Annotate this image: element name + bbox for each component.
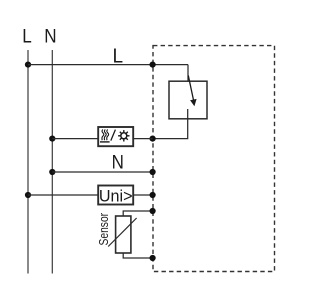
terminal dot sensor bottom [150, 255, 156, 261]
wire sensor top [123, 211, 152, 216]
terminal dot sensor top [150, 208, 156, 214]
wire N to load [52, 138, 152, 140]
wire N branch [52, 171, 152, 173]
switch lever arrow [188, 76, 196, 107]
svg-text:Uni>: Uni> [99, 186, 133, 205]
junction dot L-branch [25, 62, 31, 68]
svg-text:L: L [112, 45, 123, 68]
wire L branch horizontal [28, 64, 188, 66]
junction dot on L (Uni branch) [25, 192, 31, 198]
load box heating/cooling [98, 127, 133, 146]
wire sensor bottom [123, 253, 152, 258]
terminal dot L [150, 62, 156, 68]
svg-text:L: L [22, 26, 32, 47]
junction dot on N (load branch) [49, 136, 55, 142]
sensor diagonal stroke [108, 218, 136, 247]
svg-text:Sensor: Sensor [96, 213, 112, 246]
svg-text:N: N [44, 26, 56, 47]
device enclosure (dashed outline) [153, 46, 275, 272]
svg-text:N: N [112, 150, 124, 172]
icon separator slash [111, 130, 116, 141]
wire L vertical [27, 50, 29, 274]
input box Uni> [98, 186, 133, 205]
wire N vertical [51, 50, 53, 274]
terminal dot N [150, 169, 156, 175]
terminal dot switched L [150, 136, 156, 142]
wire switch feed (down into relay) [187, 65, 189, 82]
icon cooling (sun) [118, 130, 129, 141]
terminal dot Uni [150, 192, 156, 198]
switch contact stub + wire switch output [153, 109, 188, 139]
relay contact K1 (switch box) [169, 81, 207, 119]
wire Uni branch [28, 194, 153, 196]
icon heating (three wavy lines over bar) [100, 130, 110, 142]
junction dot on N (N branch) [49, 169, 55, 175]
sensor R (thermistor body) [116, 216, 131, 253]
